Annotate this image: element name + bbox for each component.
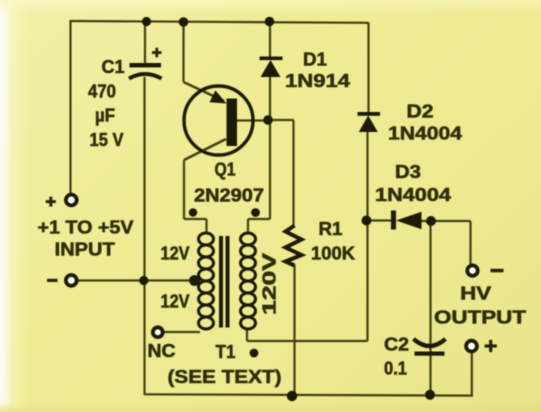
svg-text:2N2907: 2N2907 xyxy=(194,186,264,206)
svg-text:470: 470 xyxy=(88,82,116,102)
svg-text:15 V: 15 V xyxy=(90,130,124,150)
svg-text:12V: 12V xyxy=(161,244,190,264)
svg-text:C2: C2 xyxy=(384,335,409,355)
svg-text:µF: µF xyxy=(95,106,115,126)
svg-text:0.1: 0.1 xyxy=(384,359,407,379)
svg-text:12V: 12V xyxy=(161,292,190,312)
svg-text:100K: 100K xyxy=(311,244,355,264)
svg-text:1N4004: 1N4004 xyxy=(388,124,462,144)
svg-text:1N914: 1N914 xyxy=(285,71,350,91)
svg-text:D1: D1 xyxy=(303,50,327,70)
svg-text:INPUT: INPUT xyxy=(55,240,115,260)
svg-text:Q1: Q1 xyxy=(215,160,236,180)
svg-text:NC: NC xyxy=(148,341,176,361)
svg-text:HV: HV xyxy=(460,284,491,304)
svg-text:R1: R1 xyxy=(319,219,343,239)
svg-text:D3: D3 xyxy=(395,162,421,182)
svg-text:OUTPUT: OUTPUT xyxy=(434,308,526,328)
svg-text:+1 TO +5V: +1 TO +5V xyxy=(38,218,134,238)
svg-text:(SEE TEXT): (SEE TEXT) xyxy=(168,367,282,387)
svg-text:C1: C1 xyxy=(102,57,125,77)
svg-text:T1: T1 xyxy=(216,342,236,362)
svg-text:D2: D2 xyxy=(407,102,434,122)
svg-text:120V: 120V xyxy=(260,253,280,315)
svg-text:1N4004: 1N4004 xyxy=(375,185,451,205)
